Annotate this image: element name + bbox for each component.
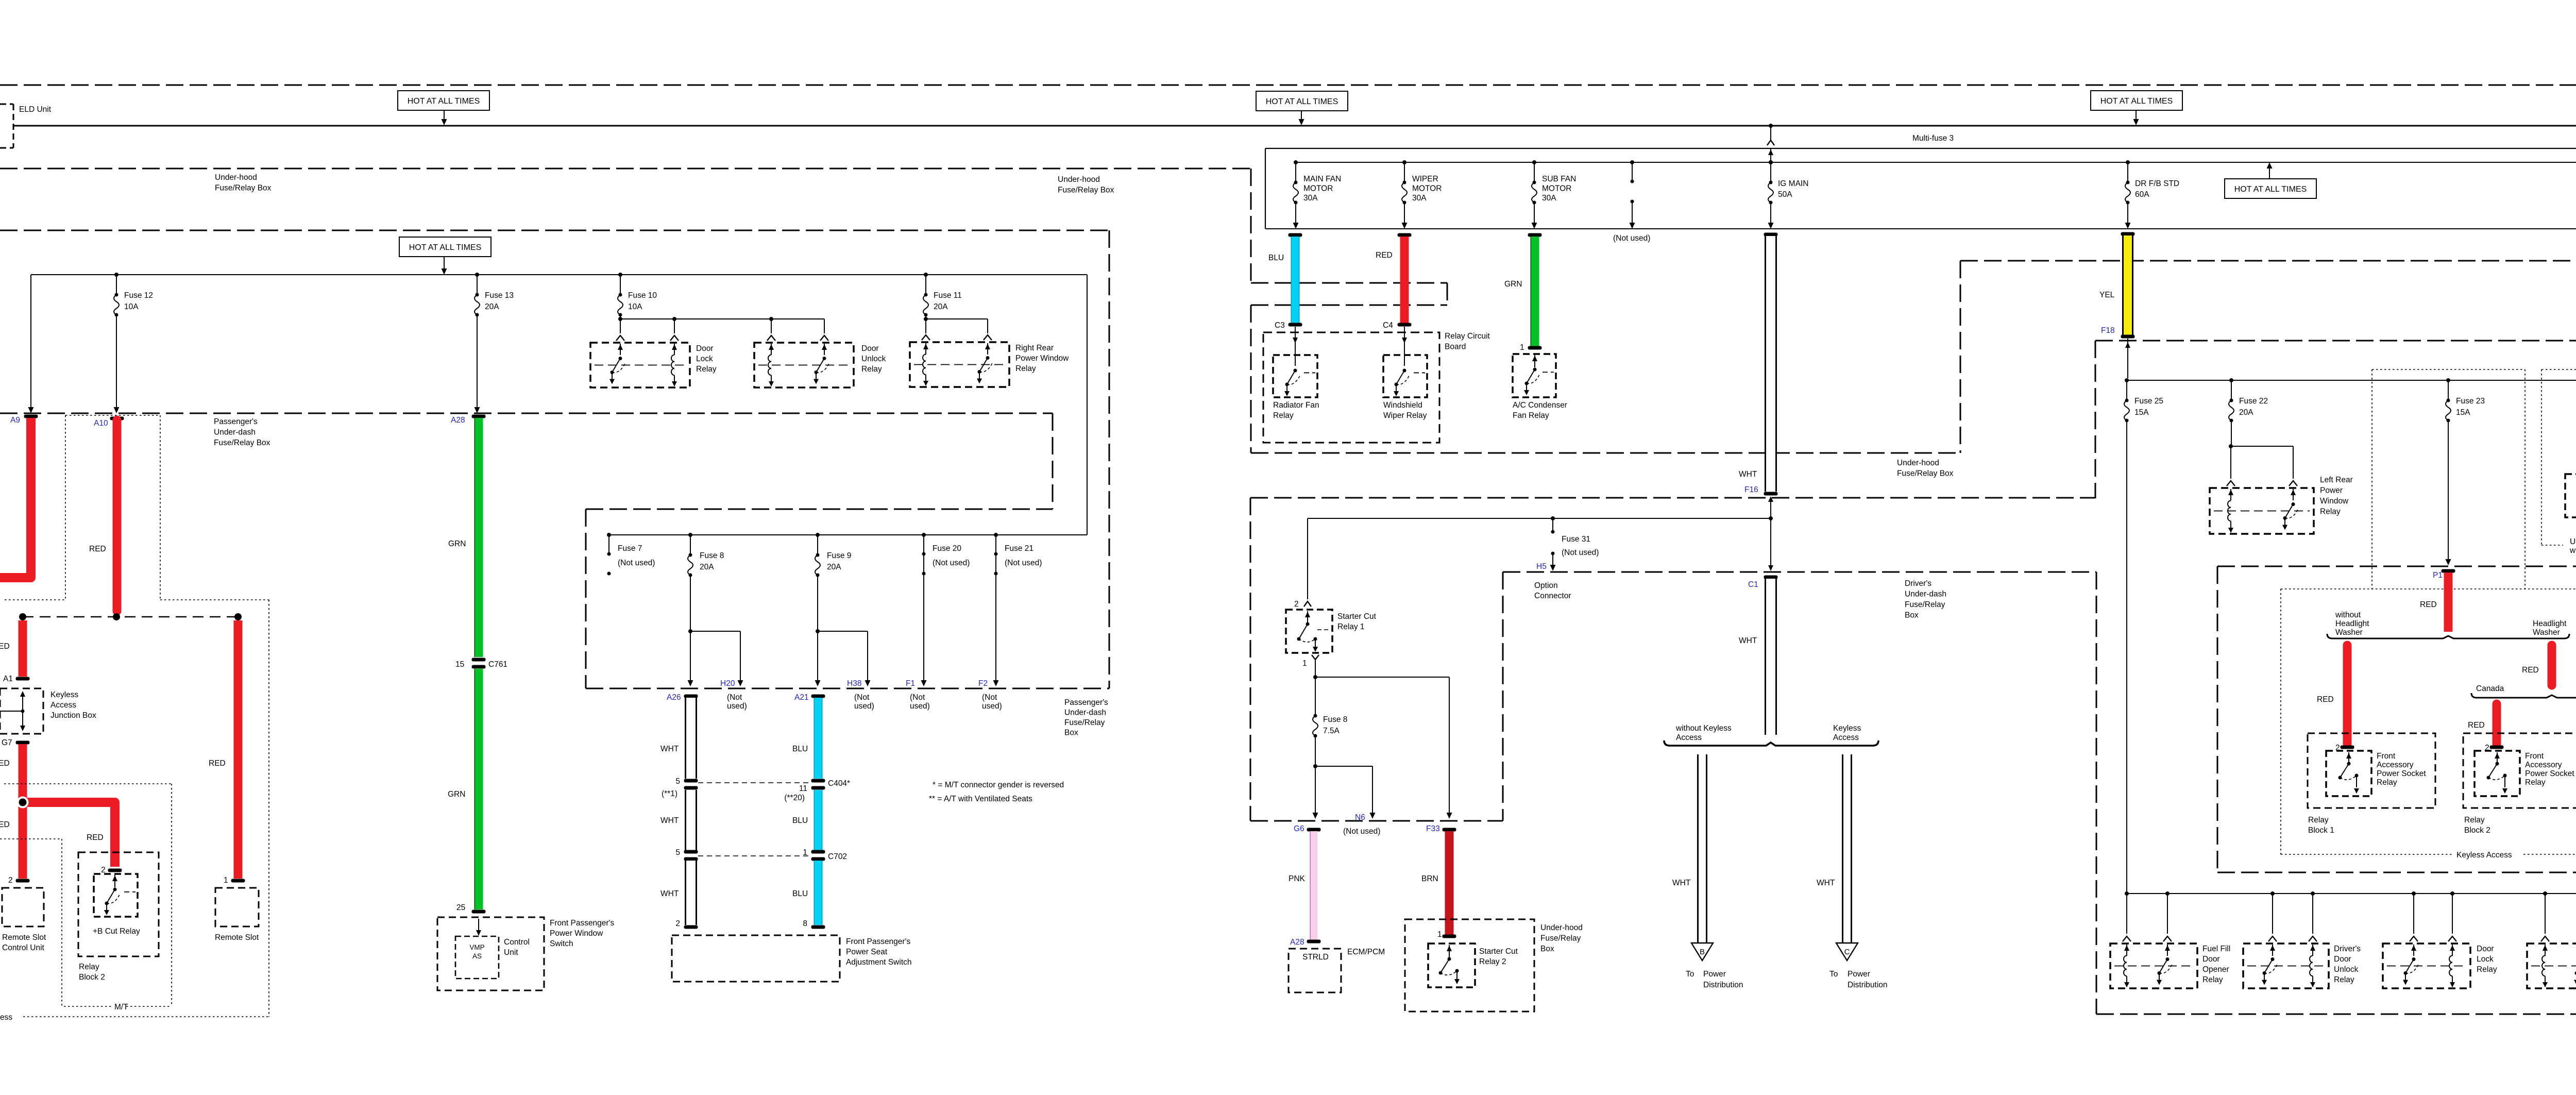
svg-text:USA, Canada:: USA, Canada: — [2570, 537, 2576, 546]
svg-text:ess: ess — [0, 1013, 12, 1022]
HOT AT ALL TIMES tag 3 — [2091, 91, 2182, 110]
svg-text:20A: 20A — [2239, 408, 2253, 417]
svg-text:VMP: VMP — [469, 944, 484, 951]
svg-text:5: 5 — [675, 777, 680, 786]
svg-text:ELD Unit: ELD Unit — [19, 105, 52, 114]
fuse 9 20A — [816, 533, 820, 537]
fuse DR F/B STD 60A — [2126, 160, 2130, 164]
svg-text:Power: Power — [1848, 970, 1870, 979]
svg-text:BLU: BLU — [792, 816, 808, 825]
svg-text:Access: Access — [1833, 733, 1859, 742]
svg-text:Junction Box: Junction Box — [50, 711, 96, 720]
wire WHT A26 column — [684, 695, 698, 698]
svg-text:7.5A: 7.5A — [1323, 727, 1340, 735]
svg-text:Fuse/Relay: Fuse/Relay — [1540, 934, 1581, 943]
svg-text:Fuse 31: Fuse 31 — [1562, 535, 1590, 544]
svg-text:Adjustment Switch: Adjustment Switch — [846, 958, 912, 967]
svg-text:without Keyless: without Keyless — [1675, 724, 1732, 733]
fuse position not used — [1630, 160, 1634, 164]
svg-text:Unit: Unit — [504, 948, 518, 957]
svg-text:Fuse 9: Fuse 9 — [827, 551, 851, 560]
solid fuse box border left — [1265, 148, 1266, 229]
svg-text:Power Socket: Power Socket — [2525, 769, 2574, 778]
svg-text:10A: 10A — [124, 302, 139, 311]
svg-text:Relay: Relay — [2308, 816, 2329, 824]
front passenger's power window switch entry 25 — [472, 910, 486, 914]
svg-text:RED: RED — [1376, 251, 1393, 260]
front passenger's power window switch box — [437, 917, 544, 990]
svg-text:Right Rear: Right Rear — [1015, 344, 1054, 352]
front accessory power socket relay (block 2) — [2490, 746, 2504, 749]
svg-text:Fuse 7: Fuse 7 — [618, 544, 642, 553]
radiator fan relay — [1295, 327, 1296, 366]
svg-text:Under-dash: Under-dash — [1905, 590, 1946, 599]
svg-text:Fuse 12: Fuse 12 — [124, 291, 153, 300]
svg-text:Fuse/Relay: Fuse/Relay — [1905, 600, 1945, 609]
svg-text:Relay 1: Relay 1 — [1337, 622, 1365, 631]
HOT AT ALL TIMES tag 1 — [398, 91, 489, 110]
svg-text:A28: A28 — [1290, 938, 1304, 947]
svg-text:MOTOR: MOTOR — [1412, 184, 1442, 193]
svg-text:(**20): (**20) — [784, 794, 805, 802]
svg-text:Switch: Switch — [550, 939, 573, 948]
wire RED without headlight washer — [2343, 645, 2352, 744]
remote slot box — [215, 888, 259, 926]
svg-text:H20: H20 — [720, 679, 735, 688]
svg-text:WHT: WHT — [1739, 470, 1757, 479]
svg-text:MOTOR: MOTOR — [1542, 184, 1571, 193]
driver's door unlock relay — [2243, 944, 2329, 988]
fuse row supply wire — [31, 274, 1087, 275]
wire WHT to power distribution C — [1843, 754, 1852, 943]
svg-text:Relay: Relay — [1015, 364, 1036, 373]
fuse IG MAIN 50A — [1769, 160, 1773, 164]
wire BLU A21 column — [811, 695, 825, 698]
svg-text:C404*: C404* — [828, 779, 850, 788]
svg-text:Relay: Relay — [2464, 816, 2485, 824]
svg-text:RED: RED — [89, 545, 106, 553]
USA/Canada dotted box — [2541, 369, 2576, 370]
svg-text:Under-dash: Under-dash — [214, 428, 256, 437]
svg-text:RED: RED — [0, 820, 10, 829]
fuse 13 20A — [475, 273, 479, 277]
svg-text:A26: A26 — [667, 693, 681, 702]
svg-text:Accessory: Accessory — [2525, 761, 2562, 769]
svg-text:AS: AS — [472, 952, 482, 960]
svg-text:Under-dash: Under-dash — [1064, 709, 1106, 717]
svg-text:20A: 20A — [934, 302, 948, 311]
svg-text:F16: F16 — [1744, 485, 1758, 494]
M/T variant dotted border — [4, 783, 172, 784]
svg-text:Keyless: Keyless — [1833, 724, 1861, 733]
fuse 7 (not used) — [607, 533, 611, 537]
svg-text:(Not used): (Not used) — [618, 559, 655, 567]
svg-text:Fan Relay: Fan Relay — [1513, 411, 1549, 420]
svg-text:Fuse 8: Fuse 8 — [1323, 715, 1347, 724]
svg-text:Windshield: Windshield — [1383, 401, 1422, 410]
passenger's under-dash fuse/relay box dashed border — [0, 230, 1109, 231]
svg-text:Fuse/Relay Box: Fuse/Relay Box — [1058, 186, 1114, 195]
fuse 23 output to P1 — [2448, 420, 2449, 563]
svg-text:H5: H5 — [1536, 562, 1547, 571]
svg-text:20A: 20A — [827, 563, 841, 571]
svg-text:Fuse/Relay: Fuse/Relay — [1064, 718, 1105, 727]
fuse 8 7.5A (under-dash) — [1315, 677, 1316, 716]
relay row supply wire — [2127, 893, 2576, 894]
svg-text:without Keyless Access: without Keyless Access — [2569, 546, 2576, 555]
driver's door unlock relay feed — [2270, 891, 2275, 896]
svg-text:IG MAIN: IG MAIN — [1778, 179, 1808, 188]
svg-text:2: 2 — [1294, 600, 1299, 609]
door lock relay feed — [2412, 891, 2416, 896]
svg-text:Fuse/Relay Box: Fuse/Relay Box — [215, 184, 272, 193]
wire F18 to fuse 25 — [2127, 339, 2128, 378]
svg-text:H38: H38 — [847, 679, 861, 688]
svg-text:P1: P1 — [2433, 571, 2443, 580]
svg-text:Fuse 13: Fuse 13 — [485, 291, 514, 300]
ELD Unit connector box — [0, 104, 13, 105]
svg-text:Fuse 25: Fuse 25 — [2134, 397, 2163, 406]
fuse MAIN FAN MOTOR 30A — [1294, 160, 1298, 164]
front accessory power socket relay (USA/Canada) — [2565, 474, 2576, 517]
svg-text:(Not used): (Not used) — [1005, 559, 1042, 567]
svg-text:RED: RED — [2317, 695, 2334, 704]
svg-text:Control Unit: Control Unit — [2, 944, 45, 952]
svg-text:Left Rear: Left Rear — [2320, 476, 2353, 484]
starter cut relay 2 — [1428, 944, 1475, 987]
svg-text:Lock: Lock — [696, 355, 713, 363]
svg-text:Driver's: Driver's — [1905, 579, 1931, 588]
svg-text:A/C Condenser: A/C Condenser — [1513, 401, 1567, 410]
svg-text:15A: 15A — [2134, 408, 2149, 417]
svg-text:(Not used): (Not used) — [933, 559, 970, 567]
fuse 23 variant dotted box — [2372, 369, 2525, 370]
fuse 22 20A — [2229, 378, 2233, 382]
svg-text:20A: 20A — [700, 563, 714, 571]
svg-text:Remote Slot: Remote Slot — [215, 933, 259, 942]
fuse SUB FAN MOTOR 30A — [1532, 160, 1536, 164]
wire RED +B cut relay entry — [108, 869, 122, 872]
svg-text:Starter Cut: Starter Cut — [1337, 612, 1377, 621]
svg-text:HOT AT ALL TIMES: HOT AT ALL TIMES — [2100, 97, 2173, 106]
svg-text:Box: Box — [1064, 729, 1078, 737]
svg-text:STRLD: STRLD — [1302, 953, 1329, 962]
svg-text:C702: C702 — [828, 852, 847, 861]
svg-text:Power Seat: Power Seat — [846, 948, 888, 956]
door unlock relay feed — [2543, 891, 2547, 896]
fuse 11 20A — [924, 273, 928, 277]
svg-text:used): used) — [854, 702, 874, 711]
svg-text:1: 1 — [1302, 659, 1307, 668]
wire right rear power window feed — [925, 315, 926, 319]
svg-text:Multi-fuse 3: Multi-fuse 3 — [1912, 134, 1954, 143]
svg-text:used): used) — [910, 702, 930, 711]
svg-text:Fuel Fill: Fuel Fill — [2202, 945, 2230, 953]
svg-text:Under-hood: Under-hood — [1540, 923, 1583, 932]
+B cut relay — [94, 874, 138, 917]
svg-text:M/T: M/T — [114, 1003, 128, 1012]
multi-fuse 3 link — [1769, 124, 1773, 128]
svg-text:Fuse/Relay Box: Fuse/Relay Box — [214, 439, 270, 447]
svg-text:F2: F2 — [978, 679, 988, 688]
svg-text:Power Socket: Power Socket — [2377, 769, 2426, 778]
remote slot entry — [231, 879, 245, 883]
svg-text:Relay: Relay — [696, 365, 717, 374]
svg-text:Fuse/Relay Box: Fuse/Relay Box — [1897, 469, 1954, 478]
door lock relay (driver's) — [2383, 944, 2470, 988]
wire to A9 — [30, 275, 31, 411]
svg-text:ECM/PCM: ECM/PCM — [1347, 948, 1385, 956]
fuse WIPER MOTOR 30A — [1402, 160, 1406, 164]
svg-text:C761: C761 — [488, 660, 507, 669]
svg-text:Fuse 23: Fuse 23 — [2456, 397, 2485, 406]
svg-text:WHT: WHT — [660, 889, 679, 898]
svg-text:Headlight: Headlight — [2335, 619, 2369, 628]
svg-text:Keyless: Keyless — [50, 690, 79, 699]
svg-text:(Not used): (Not used) — [1562, 548, 1599, 557]
wire WHT to power distribution B — [1698, 754, 1707, 943]
wire RED A9 — [24, 415, 38, 418]
HOT AT ALL TIMES tag 5 — [399, 237, 491, 257]
svg-text:Fuse 8: Fuse 8 — [700, 551, 724, 560]
fuse box internal supply wire — [1296, 162, 2576, 163]
svg-text:11: 11 — [799, 784, 807, 793]
svg-text:Washer: Washer — [2533, 628, 2560, 637]
svg-text:WIPER: WIPER — [1412, 175, 1438, 183]
svg-text:Relay Circuit: Relay Circuit — [1445, 332, 1490, 341]
wire RED A10 — [110, 417, 124, 420]
HOT AT ALL TIMES tag 7 (to fuse box wire) — [2225, 179, 2316, 198]
svg-text:30A: 30A — [1542, 194, 1556, 203]
svg-text:C1: C1 — [1748, 580, 1758, 589]
canada mexico split bracket — [2471, 693, 2576, 698]
svg-text:Wiper Relay: Wiper Relay — [1383, 411, 1427, 420]
svg-text:Front Passenger's: Front Passenger's — [550, 919, 615, 928]
svg-text:30A: 30A — [1412, 194, 1427, 203]
svg-text:WHT: WHT — [660, 816, 679, 825]
svg-text:A21: A21 — [794, 693, 809, 702]
wire RED to A1 keyless access junction box — [19, 620, 27, 677]
svg-text:Lock: Lock — [2477, 955, 2494, 964]
svg-text:N6: N6 — [1355, 813, 1365, 822]
fuse 8 output wires to A26 and H20 — [690, 575, 691, 683]
svg-text:60A: 60A — [2135, 190, 2149, 199]
svg-text:Door: Door — [861, 344, 879, 353]
svg-text:(Not: (Not — [727, 693, 742, 702]
svg-text:Under-hood: Under-hood — [1897, 459, 1939, 467]
svg-text:Unlock: Unlock — [2334, 965, 2359, 974]
svg-text:Under-hood: Under-hood — [1058, 175, 1100, 184]
wire GRN sub fan motor — [1528, 233, 1542, 237]
svg-text:25: 25 — [456, 903, 465, 912]
left rear power window relay — [2210, 488, 2314, 534]
svg-text:RED: RED — [0, 759, 10, 768]
svg-text:YEL: YEL — [2099, 291, 2115, 299]
svg-text:RED: RED — [2522, 666, 2539, 675]
svg-text:WHT: WHT — [1672, 879, 1691, 887]
svg-text:Driver's: Driver's — [2334, 945, 2361, 953]
fuse 10 10A — [618, 273, 622, 277]
svg-text:RED: RED — [0, 642, 10, 651]
svg-text:WHT: WHT — [660, 745, 679, 753]
front passenger's power seat adjustment switch box — [672, 935, 840, 982]
svg-text:Door: Door — [2334, 955, 2351, 964]
svg-text:(Not used): (Not used) — [1613, 234, 1650, 243]
wire RED canada — [2493, 704, 2501, 744]
svg-text:Access: Access — [50, 701, 76, 710]
svg-text:BLU: BLU — [792, 889, 808, 898]
svg-text:Box: Box — [1905, 611, 1919, 620]
under-hood fuse/relay box top dashed border — [0, 85, 2576, 86]
fuel fill door opener relay feed — [2125, 891, 2129, 896]
svg-text:RED: RED — [87, 833, 104, 842]
svg-text:15A: 15A — [2456, 408, 2470, 417]
svg-text:G7: G7 — [2, 738, 12, 747]
svg-text:Power Window: Power Window — [1015, 354, 1069, 363]
door lock relay — [590, 343, 690, 388]
svg-text:Canada: Canada — [2476, 684, 2504, 693]
windshield wiper relay — [1404, 327, 1405, 366]
svg-text:Relay: Relay — [2477, 965, 2497, 974]
svg-text:Board: Board — [1445, 343, 1466, 351]
svg-text:Control: Control — [504, 938, 530, 947]
svg-text:* = M/T connector gender is: * = M/T connector gender is reversed — [933, 781, 1064, 789]
svg-text:WHT: WHT — [1739, 636, 1757, 645]
svg-text:HOT AT ALL TIMES: HOT AT ALL TIMES — [1266, 97, 1338, 106]
keyless access junction box — [0, 688, 43, 734]
svg-text:Power: Power — [2320, 486, 2343, 495]
svg-text:F33: F33 — [1426, 824, 1440, 833]
right rear power window relay — [910, 342, 1009, 387]
svg-text:RED: RED — [209, 759, 226, 768]
svg-text:Under-hood: Under-hood — [215, 173, 257, 182]
wire RED headlight washer — [2548, 645, 2556, 685]
connector C702 dashed link — [698, 855, 810, 856]
svg-text:Opener: Opener — [2202, 965, 2229, 974]
wire door lock/unlock feed — [620, 315, 621, 319]
svg-text:To: To — [1686, 970, 1694, 979]
svg-text:30A: 30A — [1303, 194, 1318, 203]
fuse 25 15A — [2125, 378, 2129, 382]
solid fuse box border bottom — [1265, 228, 2576, 229]
relay block 2 box (M/T) — [78, 852, 159, 956]
svg-text:without: without — [2335, 611, 2361, 619]
wire F16 to C1 — [1770, 501, 1771, 569]
solid fuse box border top — [1265, 148, 2576, 149]
left rear power window relay feed — [2231, 420, 2232, 446]
svg-text:Relay: Relay — [2525, 778, 2546, 787]
svg-text:HOT AT ALL TIMES: HOT AT ALL TIMES — [409, 243, 482, 252]
under-hood fuse/relay box lower dashed border (left) — [0, 168, 1251, 170]
VMP AS unit — [455, 936, 499, 979]
svg-text:WHT: WHT — [1817, 879, 1835, 887]
svg-text:C: C — [1844, 948, 1850, 956]
wire BLU main fan motor — [1289, 233, 1302, 237]
svg-text:5: 5 — [675, 848, 680, 857]
svg-text:Fuse 21: Fuse 21 — [1005, 544, 1033, 553]
wire YEL DR F/B — [2121, 232, 2135, 236]
svg-text:Keyless Access: Keyless Access — [2456, 851, 2512, 860]
svg-text:Block 1: Block 1 — [2308, 826, 2334, 835]
fuse 31 not used — [1551, 516, 1555, 520]
svg-text:8: 8 — [803, 919, 807, 928]
fuse 12 10A — [114, 273, 118, 277]
hot-at-all-times bus wire — [14, 125, 2576, 127]
svg-text:C4: C4 — [1383, 321, 1393, 330]
svg-text:Headlight: Headlight — [2533, 619, 2567, 628]
svg-text:Washer: Washer — [2335, 628, 2363, 637]
svg-text:Front: Front — [2525, 752, 2544, 761]
keyless split bracket — [1664, 740, 1878, 746]
fuse 23 15A (headlight washer) — [2446, 378, 2450, 382]
svg-text:MAIN FAN: MAIN FAN — [1303, 175, 1341, 183]
svg-text:(Not: (Not — [910, 693, 925, 702]
svg-text:Window: Window — [2320, 497, 2349, 506]
svg-text:RED: RED — [2420, 600, 2437, 609]
relay block 1 box — [2308, 733, 2435, 808]
svg-text:Block 2: Block 2 — [79, 973, 105, 982]
keyless access dotted border left — [65, 415, 160, 416]
svg-text:Relay: Relay — [79, 963, 99, 971]
svg-text:To: To — [1829, 970, 1838, 979]
HOT AT ALL TIMES tag 2 — [1256, 91, 1348, 111]
svg-text:G6: G6 — [1294, 824, 1304, 833]
driver's under-dash fuse/relay box dashed border — [2095, 340, 2576, 342]
svg-text:Unlock: Unlock — [861, 355, 886, 363]
svg-text:Relay: Relay — [1273, 411, 1294, 420]
under-hood fuse/relay box (starter cut relay 2) — [1405, 919, 1534, 1012]
svg-text:1: 1 — [1437, 930, 1442, 939]
keyless access dotted box — [2281, 588, 2576, 589]
svg-text:Fuse 10: Fuse 10 — [628, 291, 657, 300]
a/c condenser fan relay — [1513, 354, 1556, 397]
svg-text:HOT AT ALL TIMES: HOT AT ALL TIMES — [408, 97, 480, 106]
wire RED remote slot — [234, 620, 243, 879]
svg-text:RED: RED — [2468, 721, 2485, 730]
wire to N6 — [1315, 766, 1372, 767]
wire starter cut relay 1 feed — [1308, 518, 1771, 519]
door unlock relay — [754, 343, 854, 388]
svg-text:SUB FAN: SUB FAN — [1542, 175, 1576, 183]
svg-text:A10: A10 — [94, 419, 108, 428]
wire GRN A28 — [472, 415, 486, 418]
svg-text:15: 15 — [455, 660, 464, 669]
connector C761 — [472, 658, 486, 662]
svg-text:BLU: BLU — [1268, 254, 1284, 262]
svg-text:Passenger's: Passenger's — [1064, 698, 1108, 707]
svg-text:** = A/T with Ventilated Seat: ** = A/T with Ventilated Seats — [929, 795, 1032, 803]
relay block 2 box — [2463, 733, 2576, 808]
svg-text:Option: Option — [1534, 581, 1558, 590]
remote slot control unit box — [2, 888, 44, 926]
fuse 8 20A — [688, 533, 692, 537]
svg-text:A28: A28 — [451, 416, 465, 425]
svg-text:Relay: Relay — [2334, 975, 2354, 984]
wire to F33 — [1315, 677, 1449, 678]
svg-text:10A: 10A — [628, 302, 642, 311]
svg-text:MOTOR: MOTOR — [1303, 184, 1333, 193]
svg-text:BLU: BLU — [792, 745, 808, 753]
svg-text:used): used) — [727, 702, 747, 711]
svg-text:20A: 20A — [485, 302, 499, 311]
svg-text:1: 1 — [1520, 343, 1524, 352]
wire RED G7 to remote slot control unit — [16, 741, 30, 745]
svg-text:Power Window: Power Window — [550, 929, 603, 938]
door unlock relay (driver's) — [2527, 944, 2576, 988]
svg-text:(Not: (Not — [854, 693, 870, 702]
svg-text:2: 2 — [675, 919, 680, 928]
svg-text:Passenger's: Passenger's — [214, 417, 258, 426]
